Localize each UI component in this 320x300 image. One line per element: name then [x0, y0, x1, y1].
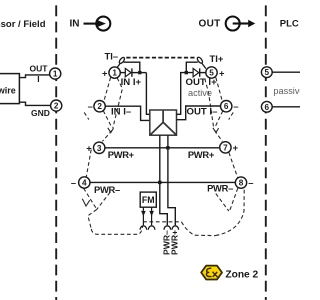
svg-text:+: +: [86, 143, 92, 154]
TI test dashed link: [126, 57, 196, 59]
junction before D2: [185, 71, 188, 74]
wire OUT I- from isolator: [177, 106, 221, 120]
svg-text:passive: passive: [273, 86, 300, 96]
outline 2-kink: [103, 111, 112, 128]
svg-text:1: 1: [53, 70, 58, 79]
junction PWR+: [166, 146, 169, 149]
outline V under 8 right branch: [229, 188, 237, 211]
svg-text:PWR–: PWR–: [94, 184, 120, 195]
wire OUT I+ from isolator: [177, 73, 193, 115]
terminal 3: [94, 142, 105, 153]
bus connector PWR-: [164, 226, 171, 230]
kink chevron left: [108, 128, 114, 133]
wire TI- rail to diode junction: [124, 62, 140, 72]
svg-text:PWR–: PWR–: [207, 182, 233, 193]
terminal 4: [79, 177, 90, 188]
isolator block: [150, 110, 177, 135]
output terminal 5: [206, 67, 217, 78]
svg-text:+: +: [233, 142, 239, 153]
PLC terminal 6: [272, 106, 300, 108]
outline V under 8 left branch: [216, 194, 229, 211]
svg-text:2-wire: 2-wire: [0, 85, 16, 95]
bottom boundary across connectors: [143, 221, 182, 223]
svg-text:4: 4: [82, 179, 87, 188]
wire PWR- rail: [90, 181, 235, 183]
svg-text:8: 8: [239, 179, 244, 188]
field terminal 2: [51, 100, 62, 111]
Ex hexagon: [201, 266, 222, 280]
outline stub below 2: [84, 112, 89, 119]
svg-text:OUT I+: OUT I+: [186, 77, 218, 88]
svg-text:TI+: TI+: [210, 53, 224, 64]
OUT direction symbol: [226, 17, 256, 31]
bus connector FM right: [148, 226, 155, 230]
wire sensor to terminal 1: [19, 75, 49, 78]
wire PWR+ rail: [105, 147, 220, 149]
outline stub below 6: [229, 112, 234, 119]
outline vertex to bottom corner: [88, 209, 97, 229]
diode D2: [193, 68, 200, 76]
svg-text:Zone 2: Zone 2: [225, 269, 258, 280]
PLC terminal 5: [272, 71, 300, 73]
wire sensor to terminal 2: [19, 102, 50, 105]
svg-text:2: 2: [54, 102, 59, 111]
svg-text:7: 7: [223, 143, 228, 152]
sensor box (2-wire transmitter): [0, 74, 19, 104]
svg-text:1: 1: [112, 69, 117, 78]
svg-text:OUT: OUT: [199, 19, 221, 30]
svg-text:+: +: [219, 67, 225, 78]
svg-text:2: 2: [97, 102, 102, 111]
IN direction symbol: [84, 17, 111, 31]
bus connector PWR+: [172, 226, 179, 230]
svg-text:3: 3: [97, 144, 102, 153]
wire IN I- into isolator: [105, 106, 150, 120]
FM box: [140, 192, 156, 207]
svg-text:PWR+: PWR+: [188, 149, 215, 160]
svg-text:–: –: [88, 101, 93, 112]
wire IN I+ into isolator: [146, 73, 149, 115]
kink chevron right: [213, 128, 219, 133]
svg-text:active: active: [188, 88, 212, 98]
svg-text:6: 6: [224, 102, 229, 111]
svg-text:FM: FM: [142, 195, 155, 205]
svg-text:5: 5: [209, 69, 214, 78]
wire D2 to terminal 5: [200, 72, 206, 74]
outline 1-2: [104, 77, 111, 101]
outline 3-4: [86, 150, 91, 178]
FM arrow left: [142, 207, 144, 225]
input terminal 2: [94, 101, 105, 112]
svg-text:PWR+: PWR+: [169, 230, 179, 255]
junction after D1: [138, 71, 141, 74]
svg-text:6: 6: [265, 103, 270, 112]
svg-text:GND: GND: [31, 108, 50, 118]
svg-text:–: –: [233, 101, 238, 112]
svg-text:OUT: OUT: [30, 64, 49, 74]
outline chevron below 4: [82, 199, 90, 206]
outline 7-8: [229, 153, 238, 178]
svg-text:IN I+: IN I+: [121, 77, 142, 88]
terminal 8: [235, 177, 246, 188]
outline 5-6: [216, 77, 223, 101]
bus wire PWR+ (right): [168, 135, 175, 225]
outline 4-bottom: [84, 188, 97, 209]
zone boundary dashed line left: [55, 0, 57, 300]
svg-text:PWR+: PWR+: [108, 149, 135, 160]
svg-text:IN I–: IN I–: [111, 106, 132, 117]
bus connector FM left: [140, 226, 147, 230]
bottom boundary left: [91, 226, 142, 235]
wire diode to riser: [132, 72, 147, 74]
svg-text:–: –: [248, 177, 253, 188]
zone boundary dashed line right: [265, 0, 267, 300]
diode D1: [125, 68, 132, 76]
svg-text:Sensor / Field: Sensor / Field: [0, 19, 46, 30]
housing outline dashes: [82, 77, 244, 235]
bus wire PWR- (left): [160, 135, 168, 225]
wire TI+ rail to junction: [186, 62, 198, 72]
svg-text:I: I: [37, 74, 39, 84]
isolator symbol: [151, 111, 177, 135]
outline label PWR- to vertex: [97, 192, 110, 209]
junction PWR-: [158, 181, 161, 184]
svg-text:IN: IN: [70, 19, 80, 30]
input terminal 1: [109, 67, 120, 78]
svg-text:PLC / DCS: PLC / DCS: [280, 19, 300, 30]
outline kink-3: [102, 130, 112, 141]
output terminal 6: [221, 101, 232, 112]
terminal 7: [220, 142, 231, 153]
outline kink-7: [215, 130, 223, 141]
svg-text:–: –: [71, 177, 76, 188]
svg-text:5: 5: [265, 68, 270, 77]
outline 6-kink right: [215, 111, 223, 128]
outline 5-kink right: [205, 79, 214, 129]
test socket TI-: [116, 57, 125, 69]
bottom curve to terminal 8: [216, 190, 245, 236]
outline 1-kink: [113, 78, 123, 128]
svg-text:TI–: TI–: [105, 51, 119, 62]
FM arrow right: [151, 207, 153, 225]
svg-text:OUT I–: OUT I–: [187, 106, 219, 117]
svg-text:+: +: [102, 67, 108, 78]
field terminal 1: [50, 68, 61, 79]
wire terminal 1 to diode: [120, 72, 125, 74]
test socket TI+: [196, 56, 206, 68]
bottom curve right: [182, 222, 216, 236]
